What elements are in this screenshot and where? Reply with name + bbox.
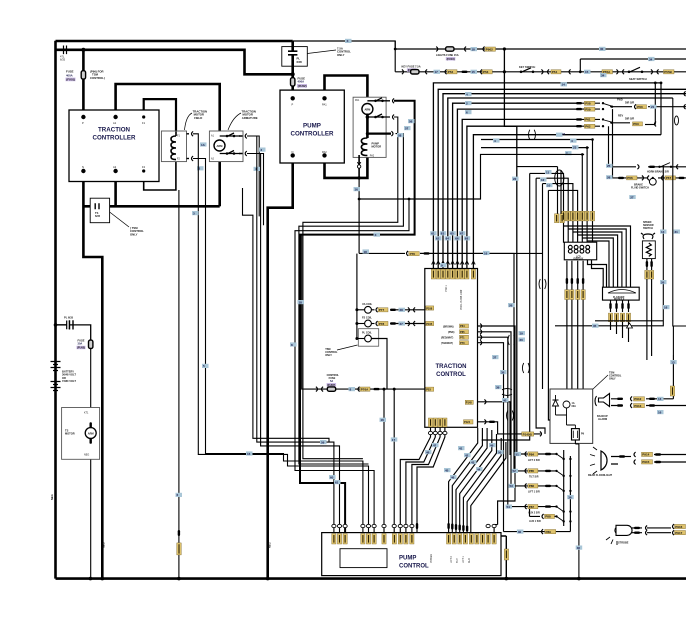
wire P76 row to tilt switch [420,253,514,471]
svg-text:40: 40 [503,398,507,402]
svg-text:18: 18 [364,250,368,254]
svg-text:A1: A1 [113,121,117,125]
svg-text:45: 45 [445,468,449,472]
fan wires [449,428,506,533]
wire pump N down [268,155,293,578]
svg-text:LIFT 1 S/R: LIFT 1 S/R [528,491,540,494]
svg-text:SWITCH: SWITCH [643,227,653,230]
svg-text:P87: P87 [529,505,535,509]
wire seat branch [580,59,686,72]
svg-text:57: 57 [405,126,409,130]
svg-text:ONLY: ONLY [609,378,616,381]
svg-text:52: 52 [513,469,517,473]
svg-text:LIFT 2 S/R: LIFT 2 S/R [528,459,540,462]
svg-text:42: 42 [465,453,469,457]
svg-text:30A: 30A [78,342,83,346]
svg-text:53: 53 [510,484,514,488]
UA coil [357,309,365,311]
wire bundle E [482,173,530,440]
svg-text:(RED/WHT): (RED/WHT) [441,338,453,340]
battery connector symbol on rail2 [64,46,67,55]
wire armature-bottom to pump control [247,154,340,533]
wire bundle F [536,178,545,434]
svg-text:A2: A2 [113,165,117,169]
svg-text:P105: P105 [426,322,433,326]
svg-text:P65: P65 [460,330,465,334]
svg-text:N: N [292,150,294,154]
PL coil box [358,329,378,347]
wire coil feed row [359,252,405,254]
svg-text:31: 31 [675,230,679,234]
wire field-top to pump control [193,134,369,533]
wire N-A2 rail [83,205,219,208]
svg-text:PUMP: PUMP [399,556,416,562]
wire PA1 loop [325,76,368,105]
svg-text:X: X [347,39,349,43]
fuse FU05 30A [89,340,93,348]
wire pump P drop [291,41,294,98]
svg-text:6/35: 6/35 [95,214,101,218]
svg-text:UA COIL: UA COIL [362,303,373,306]
wire fan 2 [452,428,482,533]
wire TC bottom pin 1 [400,427,430,532]
svg-text:REV: REV [618,115,623,118]
svg-text:P917: P917 [675,531,682,535]
svg-text:DIR S/R: DIR S/R [625,118,634,121]
wire bus5 [457,109,576,268]
wires down into display [530,140,593,243]
wire bus7 [467,126,577,268]
svg-text:ONLY: ONLY [130,232,138,236]
wire armature-top to pump control [247,136,334,533]
svg-text:64: 64 [446,237,450,241]
svg-text:PUMP: PUMP [303,123,321,130]
svg-text:TRACTION: TRACTION [436,364,467,370]
svg-text:CONTROLLER: CONTROLLER [291,131,334,138]
svg-text:CONTROLLER: CONTROLLER [93,135,136,142]
svg-text:P913: P913 [634,404,641,408]
FS coil [357,323,365,325]
wire bottom NEG bus [56,577,686,580]
svg-text:LIFT 2: LIFT 2 [450,555,453,563]
bends from display feed to module [564,226,631,287]
wire F2 route [144,162,176,190]
wire traction N down [83,171,102,579]
wires below display [567,261,583,420]
wire armature down [218,162,221,207]
TC bottom pin chips [428,418,432,427]
key switch contact [520,71,523,74]
svg-text:14: 14 [562,83,566,87]
wire bus3 [448,98,673,269]
svg-text:POOL IN 905 1009: POOL IN 905 1009 [460,289,463,310]
svg-text:P77: P77 [379,308,385,312]
svg-text:NEG: NEG [84,454,89,457]
svg-text:28: 28 [400,308,404,312]
wire F1 loop [144,99,176,131]
field brush contacts [187,134,190,159]
svg-text:21: 21 [651,105,655,109]
svg-text:P70: P70 [460,341,465,345]
svg-text:P914: P914 [642,453,649,457]
TC left pin chips [426,306,434,310]
svg-text:66: 66 [455,237,459,241]
svg-text:P52: P52 [448,70,454,74]
wire PA2 route [325,153,368,178]
row F [517,530,524,534]
svg-text:P89: P89 [546,530,552,534]
svg-text:FIELD: FIELD [194,116,202,120]
svg-text:MOTOR: MOTOR [65,432,75,436]
svg-text:19: 19 [520,331,524,335]
orange pin chips above display [561,211,594,221]
diag blue chips [458,446,465,450]
svg-text:13: 13 [658,397,662,401]
wire TC tan/wht [478,343,504,532]
wire TC pink [478,332,512,486]
svg-text:37: 37 [493,355,497,359]
svg-text:CONTROL: CONTROL [436,372,466,378]
wire lights fuse row [395,41,686,72]
svg-text:16: 16 [355,187,359,191]
svg-text:13: 13 [671,360,675,364]
svg-text:P71: P71 [460,335,465,339]
svg-text:26: 26 [661,280,665,284]
svg-text:FLUID SWITCH: FLUID SWITCH [631,186,649,189]
svg-text:P: P [292,102,294,106]
wire P9 down to bottom rail [575,440,579,579]
row C [509,484,516,488]
svg-text:11: 11 [546,170,550,174]
svg-text:25: 25 [607,164,611,168]
svg-text:72/80 VOLT: 72/80 VOLT [62,379,76,383]
svg-text:50: 50 [498,450,502,454]
coil top wire right [367,133,391,135]
svg-text:FS COIL: FS COIL [362,317,372,320]
svg-text:61: 61 [335,480,339,484]
svg-text:(FU01): (FU01) [66,78,75,82]
svg-text:61: 61 [431,232,435,236]
wire key switch row [395,71,686,73]
svg-text:48: 48 [426,450,430,454]
svg-text:16: 16 [247,452,251,456]
svg-text:P140B: P140B [523,432,533,436]
wire pump brush row1 [303,117,398,459]
fuse lights FU10 [446,47,454,51]
svg-text:FWD: FWD [617,99,623,102]
svg-text:MOTOR: MOTOR [372,145,382,149]
svg-text:P106: P106 [426,306,433,310]
wire field-bottom to pump control [193,159,363,533]
svg-text:6/35: 6/35 [297,60,303,64]
svg-text:P85: P85 [529,469,535,473]
row D [506,505,513,509]
wire display feed 4 [548,190,577,242]
PL 6/35 capacitor branch [56,325,91,340]
svg-text:STROBE: STROBE [618,542,629,545]
svg-text:(FU05): (FU05) [77,346,85,350]
svg-text:34: 34 [601,73,605,77]
svg-text:(FU10): (FU10) [447,57,455,61]
svg-text:67: 67 [460,232,464,236]
svg-text:38: 38 [501,370,505,374]
wire pump power to pump control [300,101,415,533]
wire bus9 [481,139,594,141]
row E [542,514,544,519]
svg-text:P61: P61 [585,118,591,122]
svg-text:X: X [375,233,377,237]
wire pump aux row [295,199,409,533]
svg-text:P55B: P55B [664,70,672,74]
svg-text:41: 41 [459,446,463,450]
svg-text:43: 43 [471,460,475,464]
svg-text:NEG: NEG [268,542,272,548]
TC right lower pins [465,400,473,404]
svg-text:15: 15 [585,70,589,74]
diode [553,395,559,415]
svg-text:TRACTION: TRACTION [98,127,130,134]
svg-text:58: 58 [398,133,402,137]
svg-text:18: 18 [472,47,476,51]
svg-text:17: 17 [435,70,439,74]
svg-text:16: 16 [664,305,668,309]
svg-text:20: 20 [520,338,524,342]
display box with 8888 [564,242,596,260]
svg-text:MODULE: MODULE [614,298,625,301]
svg-text:P53: P53 [483,70,489,74]
svg-text:POWER: POWER [430,554,433,563]
svg-text:36: 36 [577,546,581,550]
wire switch ladder [564,450,571,532]
svg-text:LIGHTS FUSE 15A: LIGHTS FUSE 15A [436,53,459,57]
svg-text:10: 10 [547,183,551,187]
svg-text:PL COIL: PL COIL [362,332,372,335]
wire from bottom brush chevron [254,154,264,226]
svg-text:47: 47 [433,443,437,447]
rings above pump pins [332,524,336,527]
svg-text:49: 49 [490,443,494,447]
blue chips near armature [200,142,207,146]
wire switch rows [504,454,571,532]
svg-text:P145: P145 [466,401,473,405]
wire display feed 3 [543,184,573,243]
wire display feed 6 [586,148,588,243]
svg-text:24: 24 [562,132,566,136]
fuse FU01 on traction P drop [81,71,85,79]
svg-text:17: 17 [392,438,396,442]
svg-text:LIFT 1: LIFT 1 [462,555,465,563]
svg-text:P902: P902 [486,47,493,51]
wire aux bundle [243,188,330,442]
svg-text:CONTROL): CONTROL) [90,76,105,80]
display to module bends [588,260,607,287]
svg-text:DISPLAY: DISPLAY [574,258,584,261]
svg-text:TILT: TILT [456,558,459,563]
svg-text:13: 13 [661,230,665,234]
wire F2 sense to neg bus [178,190,180,579]
svg-text:65: 65 [450,232,454,236]
svg-text:P124: P124 [464,420,471,424]
wire TC P124 to TSM [478,422,541,434]
svg-text:60A: 60A [572,405,577,408]
svg-text:16: 16 [381,418,385,422]
svg-text:22: 22 [513,177,517,181]
row B [512,469,519,473]
wire TC bottom pin 3 [412,427,440,532]
wire pump coil row [299,134,404,464]
svg-text:P78: P78 [379,322,385,326]
svg-text:18: 18 [299,300,303,304]
svg-text:P76A: P76A [361,387,369,391]
wire bundle G [542,184,544,389]
svg-text:ARM: ARM [88,431,94,435]
svg-text:P: P [82,121,84,125]
TS MOTOR box [62,408,100,460]
wire TC P145 [478,402,511,455]
svg-text:(FU02): (FU02) [298,84,307,88]
wire thin top continuation to lights fuse row [293,41,396,49]
svg-text:26: 26 [509,303,513,307]
wire display feed 1 [530,173,564,242]
wire fan 6 [467,438,501,533]
svg-text:6/35: 6/35 [60,57,66,61]
svg-text:P916: P916 [675,525,682,529]
svg-text:ONLY: ONLY [337,53,345,57]
svg-text:NEG: NEG [102,542,106,548]
svg-text:56: 56 [409,119,413,123]
svg-text:DIR S/R: DIR S/R [625,102,634,105]
svg-text:AUX: AUX [468,558,471,563]
svg-text:(PNK): (PNK) [448,332,455,334]
svg-text:TILT S/R: TILT S/R [529,476,539,479]
wire second rail [56,50,293,75]
svg-text:P915: P915 [642,460,649,464]
svg-text:AUX 1 S/R: AUX 1 S/R [529,520,541,523]
svg-text:P 84 1: P 84 1 [445,284,448,292]
wire key power to switch bank [504,49,516,454]
wire A1 loop [116,84,220,132]
svg-text:P86: P86 [529,484,535,488]
wire from top brush chevron [254,136,259,216]
wire TC brown [478,326,516,533]
svg-text:P54: P54 [552,70,558,74]
wire fan 4 [460,430,492,533]
svg-text:P63: P63 [633,122,639,126]
bus blue chips + arrows above TC [430,231,470,240]
svg-text:PA1: PA1 [355,99,360,102]
svg-text:(BROWN): (BROWN) [443,326,454,328]
svg-text:46: 46 [451,475,455,479]
svg-text:44: 44 [477,467,481,471]
svg-text:N: N [82,165,84,169]
svg-text:62: 62 [436,237,440,241]
wire left frame vertical POS rail [54,41,57,579]
wire fan 5 [463,434,496,533]
svg-text:P59: P59 [585,107,591,111]
svg-text:35: 35 [593,324,597,328]
wire bus4 [453,103,576,268]
svg-text:(FU07): (FU07) [327,383,335,387]
svg-text:P62: P62 [585,125,591,129]
wire display feed 5 [581,154,583,242]
pump motor coil [361,138,367,156]
wire traction P drop [82,50,85,117]
svg-text:CONTROL: CONTROL [399,564,429,570]
svg-text:26: 26 [607,176,611,180]
svg-text:ALARM: ALARM [598,418,607,421]
svg-text:54: 54 [507,505,511,509]
svg-text:P912: P912 [634,397,641,401]
svg-text:PA2: PA2 [322,150,327,154]
svg-text:P84: P84 [529,452,535,456]
svg-text:SEAT SWITCH: SEAT SWITCH [629,77,647,81]
svg-text:15: 15 [472,70,476,74]
svg-text:27: 27 [630,195,634,199]
svg-text:PA2: PA2 [370,154,375,157]
svg-text:27: 27 [400,322,404,326]
svg-text:KEY FUSE 7.5A: KEY FUSE 7.5A [402,65,421,69]
svg-text:60: 60 [330,475,334,479]
wire bus1 [433,83,661,269]
wire bus8 [473,135,661,269]
svg-text:PL 6/35: PL 6/35 [64,316,74,320]
right side vertical to rail [501,536,506,579]
wire fan 7 [471,442,506,533]
svg-text:P64: P64 [460,324,465,328]
svg-text:PA1: PA1 [322,102,327,106]
fuse FU02 on pump P drop [291,78,295,86]
svg-text:16: 16 [658,410,662,414]
svg-text:30: 30 [600,47,604,51]
wire bundle H [548,190,550,420]
svg-text:P60: P60 [637,105,643,109]
blue chips on bus rows [561,82,568,86]
wire display feed 7 [592,140,594,243]
wire TC red/wht [478,337,508,506]
svg-text:ARMATURE: ARMATURE [242,116,258,120]
wire fan 1 [449,428,478,533]
wire display feed 2 [536,178,568,243]
svg-text:39: 39 [496,385,500,389]
wire TC bottom pin 2 [406,427,435,532]
wire top rail [56,40,293,43]
wire bus2 [438,89,686,268]
svg-text:34: 34 [649,57,653,61]
svg-text:(TAN/WHT): (TAN/WHT) [441,342,453,345]
svg-text:P88: P88 [545,515,551,519]
svg-text:ARM: ARM [364,107,370,111]
svg-text:ONLY: ONLY [325,354,332,357]
svg-text:KT1: KT1 [84,412,89,415]
right vertical wires [555,98,686,355]
svg-text:51: 51 [516,452,520,456]
svg-text:P67: P67 [666,176,672,180]
svg-text:P66: P66 [627,176,633,180]
svg-text:63: 63 [441,232,445,236]
svg-text:59: 59 [321,440,325,444]
svg-text:REAR FLOODLIGHT: REAR FLOODLIGHT [588,474,612,477]
ring on row132 [529,130,536,140]
svg-text:P53: P53 [426,388,431,392]
svg-text:36: 36 [568,495,572,499]
wire TC bottom pin 4 [417,427,445,532]
PL 6/35 box top with capacitor [282,47,308,67]
wire fan 3 [456,428,487,533]
svg-text:68: 68 [465,237,469,241]
wire row199 [359,154,584,199]
row A [515,452,522,456]
armature output wires [254,136,264,225]
